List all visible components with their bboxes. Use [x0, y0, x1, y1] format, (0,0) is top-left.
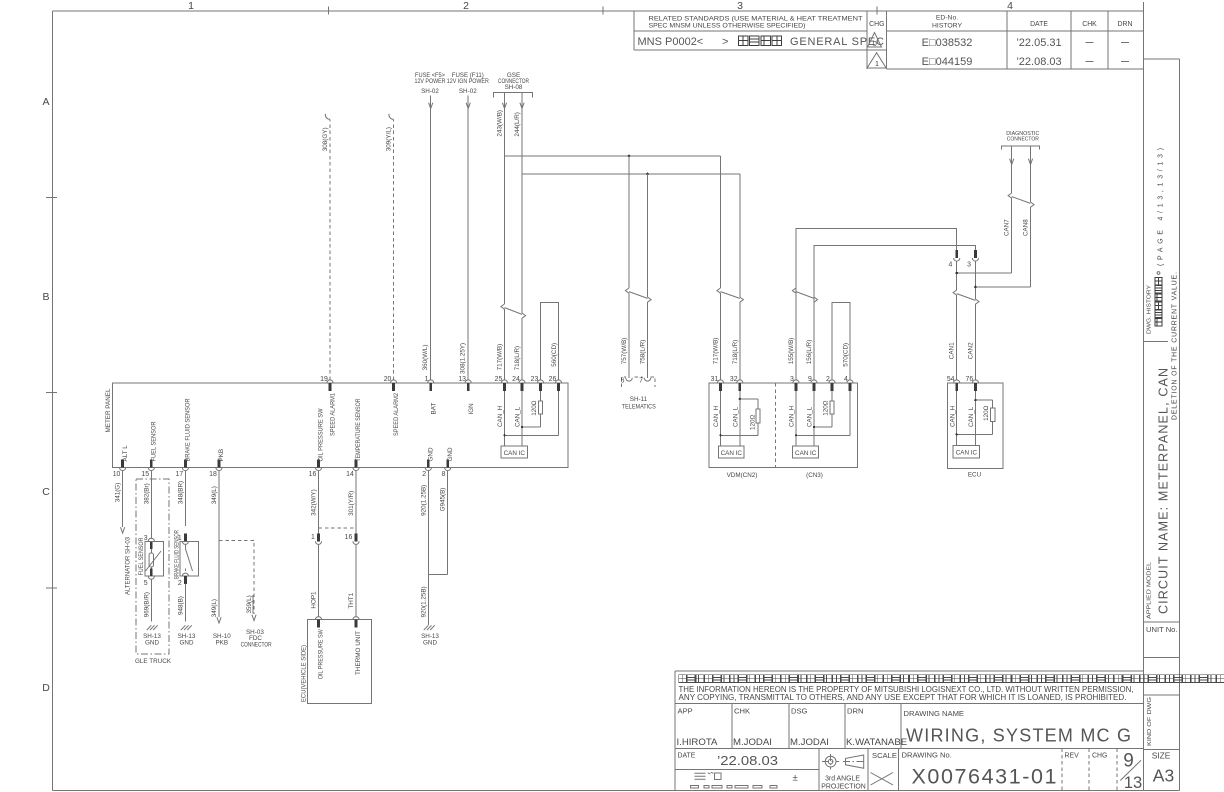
- wire 301(Y/R) temperature: [355, 471, 357, 534]
- svg-text:2: 2: [178, 580, 182, 587]
- title block: [675, 671, 1224, 792]
- svg-text:308(1.25Y): 308(1.25Y): [460, 343, 467, 374]
- twisted pair ECU: [953, 290, 957, 295]
- twisted pair telematics: [625, 288, 629, 293]
- svg-text:GND: GND: [423, 640, 437, 647]
- svg-text:TEMPERATURE SENSOR: TEMPERATURE SENSOR: [355, 398, 362, 461]
- svg-text:ECU(VEHICLE SIDE): ECU(VEHICLE SIDE): [300, 645, 307, 702]
- wire 948(B): [184, 584, 186, 622]
- inline connector pin 16: [345, 534, 359, 545]
- meter panel pin 14: [346, 460, 359, 478]
- meter panel pin 18: [209, 460, 222, 478]
- svg-text:CAN_H: CAN_H: [713, 405, 720, 427]
- revision triangle 1: [867, 53, 886, 68]
- svg-text:SIZE: SIZE: [1152, 751, 1171, 761]
- wire 342(W/Y) oil pressure: [318, 471, 320, 534]
- svg-text:8: 8: [442, 471, 446, 478]
- svg-text:SCALE: SCALE: [872, 751, 897, 760]
- svg-text:26: 26: [549, 376, 557, 383]
- ECU pin 76: [966, 376, 979, 391]
- ECU pin 54: [947, 376, 960, 391]
- resistor 120ohm VDM: [756, 409, 760, 423]
- meter panel pin 8: [442, 460, 451, 478]
- VDM/CN3 pin 9: [808, 376, 817, 391]
- notice japanese line: [679, 675, 1224, 683]
- svg-text:4: 4: [844, 376, 848, 383]
- svg-text:6: 6: [621, 378, 625, 385]
- svg-text:BRAKE FLUID SENSOR: BRAKE FLUID SENSOR: [174, 530, 181, 579]
- svg-text:CHK: CHK: [734, 707, 750, 716]
- inline connector pin 4: [948, 250, 959, 268]
- svg-text:PROJECTION: PROJECTION: [821, 784, 865, 791]
- CAN IC meter: [501, 446, 527, 458]
- svg-text:348(BR): 348(BR): [177, 481, 184, 504]
- svg-text:GND: GND: [428, 447, 435, 461]
- 3rd angle projection symbol: [825, 756, 836, 767]
- svg-text:SPEED ALARM2: SPEED ALARM2: [393, 393, 400, 436]
- loop 570(CD): [832, 302, 850, 380]
- svg-text:E□038532: E□038532: [922, 37, 973, 49]
- twisted pair VDM: [717, 288, 721, 293]
- svg-text:308(GY): 308(GY): [322, 127, 329, 151]
- svg-text:CAN_H: CAN_H: [497, 405, 504, 427]
- svg-text:PKB: PKB: [215, 640, 228, 647]
- svg-text:HISTORY: HISTORY: [932, 23, 962, 30]
- svg-text:DSG: DSG: [791, 707, 808, 716]
- junction: [646, 173, 649, 176]
- svg-text:757(W/B): 757(W/B): [621, 338, 628, 365]
- svg-text:K.WATANABE: K.WATANABE: [846, 737, 907, 748]
- svg-text:360(W/L): 360(W/L): [422, 344, 429, 370]
- svg-text:7: 7: [639, 378, 643, 385]
- svg-text:DATE: DATE: [1030, 21, 1048, 28]
- svg-text:244(L/R): 244(L/R): [514, 112, 521, 137]
- svg-text:1: 1: [188, 0, 194, 12]
- resistor 120ohm ECU: [991, 408, 995, 422]
- wire THT1: [355, 545, 357, 617]
- svg-text:A: A: [42, 96, 49, 108]
- svg-text:CAN1: CAN1: [949, 342, 956, 359]
- svg-text:3: 3: [737, 0, 743, 12]
- svg-text:560(CD): 560(CD): [551, 343, 558, 367]
- wire pin25 to CAN IC: [504, 391, 506, 446]
- ground SH-13: [181, 625, 192, 630]
- svg-text:969(B/R): 969(B/R): [143, 592, 150, 617]
- svg-text:METER PANEL: METER PANEL: [105, 388, 112, 432]
- svg-text:CAN8: CAN8: [1023, 219, 1030, 236]
- svg-text:>: >: [722, 36, 728, 48]
- svg-text:DELETION OF THE CURRENT VALUE.: DELETION OF THE CURRENT VALUE.: [1172, 272, 1179, 420]
- twisted pair CN3: [792, 288, 796, 293]
- svg-text:TELEMATICS: TELEMATICS: [622, 404, 656, 411]
- svg-text:717(W/B): 717(W/B): [713, 338, 720, 365]
- svg-text:M.JODAI: M.JODAI: [790, 737, 829, 748]
- svg-text:BAT: BAT: [430, 403, 437, 415]
- meter panel pin 13: [458, 376, 471, 391]
- svg-text:342(W/Y): 342(W/Y): [311, 489, 318, 516]
- svg-text:DATE: DATE: [678, 753, 696, 760]
- svg-text:3: 3: [790, 376, 794, 383]
- inline connector pin 1: [311, 534, 322, 545]
- wire 341(G) alternator: [122, 471, 124, 527]
- svg-text:570(CD): 570(CD): [842, 343, 849, 367]
- svg-text:25: 25: [495, 376, 503, 383]
- svg-text:14: 14: [346, 471, 354, 478]
- svg-text:ED-No.: ED-No.: [936, 15, 958, 22]
- inline connector pin 3: [967, 250, 978, 268]
- meter panel pin 20: [384, 376, 397, 391]
- svg-text:13: 13: [1124, 774, 1142, 792]
- svg-text:X0076431-01: X0076431-01: [912, 765, 1057, 789]
- svg-text:20: 20: [384, 376, 392, 383]
- svg-text:GND: GND: [145, 640, 159, 647]
- svg-text:THT1: THT1: [348, 592, 355, 608]
- svg-text:16: 16: [345, 534, 353, 541]
- svg-text:3: 3: [967, 262, 971, 269]
- CAN IC VDM: [719, 446, 745, 458]
- right panel: dwg history / circuit name: [1144, 148, 1180, 786]
- CAN_L bus wire: [522, 173, 740, 175]
- wire pin24 to CAN IC: [521, 391, 523, 446]
- VDM(CN2)/CN3 box: [709, 383, 858, 468]
- wire 349(L) PKB: [218, 471, 220, 617]
- wire 120ohm to CAN_L: [522, 426, 541, 428]
- SH-11 telematics connector: [621, 377, 656, 411]
- svg-text:12V POWER: 12V POWER: [415, 78, 446, 85]
- svg-text:SH-02: SH-02: [421, 88, 439, 95]
- svg-text:16: 16: [309, 471, 317, 478]
- svg-text:APPLIED MODEL: APPLIED MODEL: [1147, 562, 1153, 619]
- svg-text:CONNECTOR: CONNECTOR: [1007, 137, 1039, 143]
- svg-text:920(1.25B): 920(1.25B): [420, 485, 427, 516]
- meter panel pin 16: [309, 460, 322, 478]
- svg-text:120Ω: 120Ω: [531, 400, 538, 416]
- revision table: [634, 11, 1144, 69]
- svg-text:758(L/R): 758(L/R): [640, 340, 647, 365]
- svg-text:CAN_H: CAN_H: [789, 405, 796, 427]
- svg-text:2: 2: [826, 376, 830, 383]
- svg-text:948(B): 948(B): [177, 596, 184, 615]
- svg-text:718(L/R): 718(L/R): [732, 340, 739, 365]
- svg-text:3rd ANGLE: 3rd ANGLE: [825, 776, 860, 783]
- logo: [695, 772, 714, 779]
- wire 920(1.25B) gnd: [427, 471, 429, 625]
- wire G945(B) gnd: [447, 471, 449, 575]
- svg-text:PKB: PKB: [218, 449, 225, 462]
- svg-text:CHG: CHG: [1092, 753, 1107, 760]
- meter panel pin 1: [425, 376, 434, 391]
- svg-text:ECU: ECU: [968, 472, 982, 479]
- CAN_H bus wire 2: [796, 229, 957, 380]
- svg-text:IGN: IGN: [468, 403, 475, 415]
- svg-text:CAN IC: CAN IC: [956, 450, 978, 457]
- svg-text:B: B: [42, 291, 49, 303]
- meter panel pin 10: [113, 460, 126, 478]
- svg-text:120Ω: 120Ω: [983, 405, 990, 421]
- svg-text:CIRCUIT NAME: METERPANEL, CAN: CIRCUIT NAME: METERPANEL, CAN: [1157, 368, 1171, 614]
- fuel sensor pin 5: [144, 568, 155, 586]
- svg-text:341(G): 341(G): [115, 483, 122, 503]
- svg-text:1: 1: [311, 534, 315, 541]
- svg-text:HOP1: HOP1: [311, 591, 318, 609]
- svg-text:I.HIROTA: I.HIROTA: [677, 737, 718, 748]
- svg-text:1: 1: [875, 59, 879, 68]
- ground SH-13: [424, 625, 435, 630]
- svg-text:REV: REV: [1065, 753, 1080, 760]
- svg-text:1: 1: [425, 376, 429, 383]
- svg-text:156(L/R): 156(L/R): [806, 340, 813, 365]
- wire 717(W/B) to VDM pin31: [720, 156, 722, 288]
- svg-text:920(1.25B): 920(1.25B): [420, 586, 427, 617]
- wire 308(GY) dashed: [329, 119, 331, 380]
- ECU box: [948, 383, 1003, 468]
- ECU vehicle pin HOP1: [315, 617, 321, 628]
- svg-text:10: 10: [113, 471, 121, 478]
- svg-text:(CN3): (CN3): [806, 472, 823, 479]
- wire HOP1: [318, 545, 320, 617]
- svg-text:GND: GND: [180, 640, 194, 647]
- svg-text:DRN: DRN: [847, 707, 863, 716]
- VDM/CN3 pin 31: [711, 376, 724, 391]
- svg-text:’22.08.03: ’22.08.03: [1016, 56, 1061, 68]
- junction: [503, 434, 505, 436]
- wire CAN7: [1011, 146, 1013, 193]
- twisted pair meter CAN: [501, 304, 505, 309]
- meter panel box: [113, 383, 569, 468]
- svg-text:WIRING, SYSTEM MC G: WIRING, SYSTEM MC G: [906, 726, 1131, 746]
- meter panel pin 26: [549, 376, 562, 391]
- svg-text:A3: A3: [1153, 766, 1174, 786]
- wire CAN2 to ECU: [974, 261, 976, 299]
- svg-text:CONNECTOR: CONNECTOR: [241, 642, 272, 649]
- wire 244(L/R) GSE to pin24: [521, 92, 523, 313]
- svg-text:359(L): 359(L): [246, 595, 253, 613]
- wire 757(W/B) to telematics: [628, 156, 630, 288]
- svg-text:RELATED STANDARDS (USE MATERIA: RELATED STANDARDS (USE MATERIAL & HEAT T…: [649, 16, 863, 23]
- CAN_L bus wire 2: [814, 246, 975, 380]
- junction: [628, 155, 631, 158]
- connector dashes: [319, 527, 357, 529]
- svg-text:BRAKE FLUID SENSOR: BRAKE FLUID SENSOR: [185, 398, 192, 461]
- svg-text:301(Y/R): 301(Y/R): [348, 491, 355, 516]
- brake fluid sensor pin 2: [178, 573, 189, 587]
- svg-text:’22.08.03: ’22.08.03: [717, 754, 778, 768]
- svg-text:’22.05.31: ’22.05.31: [1016, 37, 1061, 49]
- svg-text:D: D: [42, 682, 50, 694]
- svg-text:CAN_L: CAN_L: [807, 406, 814, 427]
- svg-text:CAN_L: CAN_L: [732, 406, 739, 427]
- svg-text:CAN7: CAN7: [1004, 219, 1011, 236]
- VDM/CN3 pin 2: [826, 376, 835, 391]
- twisted pair diagnostic: [1008, 193, 1012, 198]
- svg-text:APP: APP: [678, 707, 693, 716]
- svg-text:717(W/B): 717(W/B): [497, 344, 504, 371]
- svg-text:OIL PRESSURE SW: OIL PRESSURE SW: [318, 629, 325, 679]
- svg-text:E□044159: E□044159: [922, 56, 973, 68]
- meter panel pin 15: [141, 460, 154, 478]
- VDM internal wiring: [720, 391, 722, 446]
- svg-text:G945(B): G945(B): [440, 488, 447, 512]
- svg-text:DWG. HISTORY: DWG. HISTORY: [1147, 285, 1153, 334]
- wire pin26 to CAN_H: [505, 434, 559, 436]
- svg-text:±: ±: [793, 773, 798, 784]
- wire BAT from fuse F5: [430, 96, 432, 380]
- svg-text:SH-02: SH-02: [459, 88, 477, 95]
- svg-text:DRAWING No.: DRAWING No.: [902, 751, 952, 760]
- svg-text:382(Br): 382(Br): [143, 483, 150, 504]
- svg-text:MNS P0002<: MNS P0002<: [638, 36, 704, 48]
- svg-text:C: C: [42, 486, 50, 498]
- svg-text:UNIT No.: UNIT No.: [1146, 625, 1178, 634]
- wire 718(L/R) to VDM pin32: [739, 174, 741, 297]
- svg-text:VDM(CN2): VDM(CN2): [727, 472, 758, 479]
- VDM/CN3 pin 32: [730, 376, 743, 391]
- svg-text:FUEL SENSOR: FUEL SENSOR: [151, 421, 158, 461]
- brake fluid sensor component: [180, 541, 199, 576]
- svg-text:4: 4: [948, 262, 952, 269]
- svg-text:ALT L: ALT L: [122, 445, 129, 462]
- svg-text:349(L): 349(L): [211, 486, 218, 504]
- meter panel pin 25: [495, 376, 508, 391]
- svg-text:243(W/B): 243(W/B): [497, 110, 504, 137]
- svg-text:DRAWING NAME: DRAWING NAME: [904, 709, 964, 718]
- wire CAN8: [1030, 146, 1032, 202]
- svg-text:SPEED ALARM1: SPEED ALARM1: [330, 393, 337, 436]
- svg-text:32: 32: [730, 376, 738, 383]
- svg-text:155(W/B): 155(W/B): [788, 338, 795, 365]
- wire 969(B/R): [150, 579, 152, 621]
- svg-text:CAN IC: CAN IC: [721, 450, 743, 457]
- ECU vehicle side box: [308, 620, 372, 704]
- svg-text:17: 17: [176, 471, 184, 478]
- svg-text:24: 24: [512, 376, 520, 383]
- svg-text:M.JODAI: M.JODAI: [733, 737, 772, 748]
- svg-text:12V IGN POWER: 12V IGN POWER: [447, 78, 489, 85]
- ground SH-13: [147, 625, 158, 630]
- VDM/CN3 pin 3: [790, 376, 799, 391]
- loop 560(CD): [541, 302, 559, 380]
- fuel sensor component: [145, 541, 164, 576]
- wire 309(Y/L) dashed: [393, 119, 395, 380]
- svg-text:15: 15: [141, 471, 149, 478]
- meter panel pin 17: [176, 460, 189, 478]
- svg-text:GLE TRUCK: GLE TRUCK: [135, 658, 172, 665]
- resistor 120ohm CN3: [830, 401, 834, 414]
- meter panel pin 23: [531, 376, 544, 391]
- svg-text:SH-11: SH-11: [630, 396, 648, 403]
- VDM/CN3 pin 4: [844, 376, 853, 391]
- svg-text:120Ω: 120Ω: [822, 400, 829, 416]
- svg-text:76: 76: [966, 376, 974, 383]
- wire 243(W/B) GSE to pin25: [504, 92, 506, 304]
- svg-text:718(L/R): 718(L/R): [514, 346, 521, 371]
- svg-text:13: 13: [458, 376, 466, 383]
- svg-text:CAN_L: CAN_L: [968, 406, 975, 427]
- CAN_H bus wire: [505, 155, 721, 157]
- svg-text:(PAGE 4/13,13/13): (PAGE 4/13,13/13): [1158, 148, 1165, 266]
- svg-text:2: 2: [463, 0, 469, 12]
- svg-text:5: 5: [144, 580, 148, 587]
- svg-text:FUEL SENSOR: FUEL SENSOR: [138, 537, 145, 575]
- svg-text:SH-08: SH-08: [505, 84, 523, 91]
- ECU vehicle pin THT1: [353, 617, 359, 628]
- svg-text:23: 23: [531, 376, 539, 383]
- wire pin26 down: [558, 391, 560, 436]
- wire 382(Br) fuel sensor: [150, 471, 152, 539]
- svg-text:9: 9: [808, 376, 812, 383]
- wire 758(L/R) to telematics: [647, 174, 649, 297]
- svg-text:2: 2: [422, 471, 426, 478]
- svg-text:0: 0: [873, 39, 877, 48]
- fuel sensor pin 3: [144, 535, 155, 549]
- svg-text:DRN: DRN: [1118, 21, 1133, 28]
- svg-text:CAN2: CAN2: [967, 342, 974, 359]
- svg-text:54: 54: [947, 376, 955, 383]
- svg-text:SPEC MNSM UNLESS OTHERWISE SPE: SPEC MNSM UNLESS OTHERWISE SPECIFIED): [649, 23, 806, 30]
- svg-text:CHG: CHG: [869, 21, 884, 28]
- CAN IC CN3: [793, 446, 819, 458]
- wire 359(L) FDC dashed: [219, 540, 254, 614]
- svg-text:CAN IC: CAN IC: [504, 450, 526, 457]
- svg-text:CAN_H: CAN_H: [949, 405, 956, 427]
- GLE TRUCK dash-dot box: [136, 479, 169, 654]
- svg-text:18: 18: [209, 471, 217, 478]
- CN3 internal wiring: [795, 391, 797, 446]
- svg-text:19: 19: [320, 376, 328, 383]
- meter panel pin 19: [320, 376, 333, 391]
- svg-text:KIND OF DWG: KIND OF DWG: [1147, 697, 1153, 746]
- svg-text:ALTERNATOR SH-03: ALTERNATOR SH-03: [125, 537, 132, 595]
- svg-text:CAN IC: CAN IC: [795, 450, 817, 457]
- svg-text:31: 31: [711, 376, 719, 383]
- svg-text:GND: GND: [447, 447, 454, 461]
- svg-text:CHK: CHK: [1082, 21, 1097, 28]
- brake fluid sensor pin 1: [178, 534, 189, 545]
- meter panel pin 2: [422, 460, 431, 478]
- resistor 120ohm meter: [540, 391, 542, 401]
- meter panel pin 24: [512, 376, 525, 391]
- svg-text:349(L): 349(L): [211, 599, 218, 617]
- svg-text:OIL PRESSURE SW: OIL PRESSURE SW: [318, 408, 325, 461]
- svg-text:CAN_L: CAN_L: [515, 406, 522, 427]
- ECU internal wiring: [956, 391, 958, 446]
- wire IGN from fuse F11: [467, 96, 469, 380]
- GSE connector bracket: [493, 92, 532, 97]
- wire CAN1 to ECU: [956, 261, 958, 290]
- revision triangle 0: [868, 33, 882, 48]
- svg-text:309(Y/L): 309(Y/L): [386, 127, 393, 151]
- svg-text:ANY COPYING, TRANSMITTAL TO OT: ANY COPYING, TRANSMITTAL TO OTHERS, AND …: [679, 692, 1127, 702]
- svg-text:120Ω: 120Ω: [750, 414, 757, 430]
- svg-text:4: 4: [1007, 0, 1013, 12]
- wire 348(BR) brake fluid sensor: [184, 471, 186, 526]
- svg-text:THERMO UNIT: THERMO UNIT: [355, 631, 362, 675]
- CAN IC ECU: [953, 445, 980, 458]
